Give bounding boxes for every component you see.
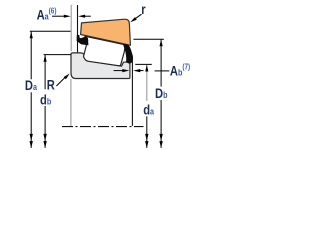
arrowhead da down 1 — [145, 134, 148, 141]
node cone backface plane (gray extension line below cone) — [70, 79, 72, 126]
svg-text:R: R — [47, 77, 55, 92]
dimension db vertical line upper — [44, 55, 46, 89]
dimension Aa leader line — [52, 15, 65, 17]
arrowhead Db down 2 — [159, 141, 162, 148]
arrowhead Ab left-pointing — [133, 69, 140, 72]
wire cage front protrusion plane (black vertical line) — [131, 57, 133, 126]
centerline (axis of rotation, dash-dot) — [62, 126, 144, 128]
label Da — [25, 78, 37, 93]
label da — [143, 102, 154, 117]
dimension Ab right arrow shaft — [139, 70, 144, 72]
arrowhead da down 2 — [145, 141, 148, 148]
arrowhead da up — [145, 65, 148, 72]
cone (inner ring, gray) — [71, 53, 130, 79]
arrowhead Da down 1 — [30, 134, 33, 141]
label r — [141, 2, 145, 17]
roller (tapered roller, white) — [84, 36, 125, 65]
dimension da reference line — [135, 63, 152, 65]
arrowhead Aa right-pointing — [64, 15, 71, 18]
label Db — [155, 86, 167, 101]
dimension Ab left arrow shaft — [114, 70, 123, 72]
dimension Ab leader to label — [155, 70, 170, 72]
arrowhead Da up — [30, 32, 33, 39]
svg-text:r: r — [141, 2, 145, 17]
arrowhead Db down 1 — [159, 134, 162, 141]
dimension db vertical line lower — [44, 106, 46, 148]
label db — [40, 92, 51, 107]
cage back piece (black, small end of roller) — [77, 35, 89, 46]
dimension db reference line — [44, 54, 71, 56]
arrowhead db up — [44, 55, 47, 62]
cup (outer ring, orange) — [81, 19, 131, 45]
arrowhead r — [130, 17, 136, 22]
dimension Aa right arrow shaft — [85, 15, 91, 17]
wire cage back protrusion plane (black vertical line) — [77, 5, 79, 52]
dimension Da vertical line upper — [30, 32, 32, 80]
arrowhead db down 1 — [43, 134, 46, 141]
arrowhead Db up — [160, 40, 163, 47]
label Aa(6) — [37, 6, 57, 23]
arrow R (to cone backface fillet) — [56, 77, 66, 87]
node cone backface plane (gray extension line above cone) — [70, 5, 72, 51]
dimension Da vertical line lower — [30, 92, 32, 148]
arrowhead db down 2 — [43, 141, 46, 148]
dimension Db vertical line upper — [160, 40, 162, 87]
arrowhead R — [64, 74, 70, 80]
arrowhead Ab right-pointing — [122, 69, 129, 72]
arrowhead Da down 2 — [30, 141, 33, 148]
label R — [47, 77, 55, 92]
arrow r (to cup corner radius) — [135, 14, 142, 19]
dimension Db reference line — [133, 38, 164, 40]
dimension da vertical line upper (gray) — [146, 65, 148, 101]
arrowhead Aa left-pointing — [78, 15, 85, 18]
label Ab(7) — [170, 62, 191, 79]
cage front piece (black hook at large end of roller) — [123, 44, 133, 64]
dimension Db vertical line lower — [160, 100, 162, 148]
dimension Da reference line — [30, 30, 71, 32]
dimension da vertical line lower — [146, 116, 148, 147]
